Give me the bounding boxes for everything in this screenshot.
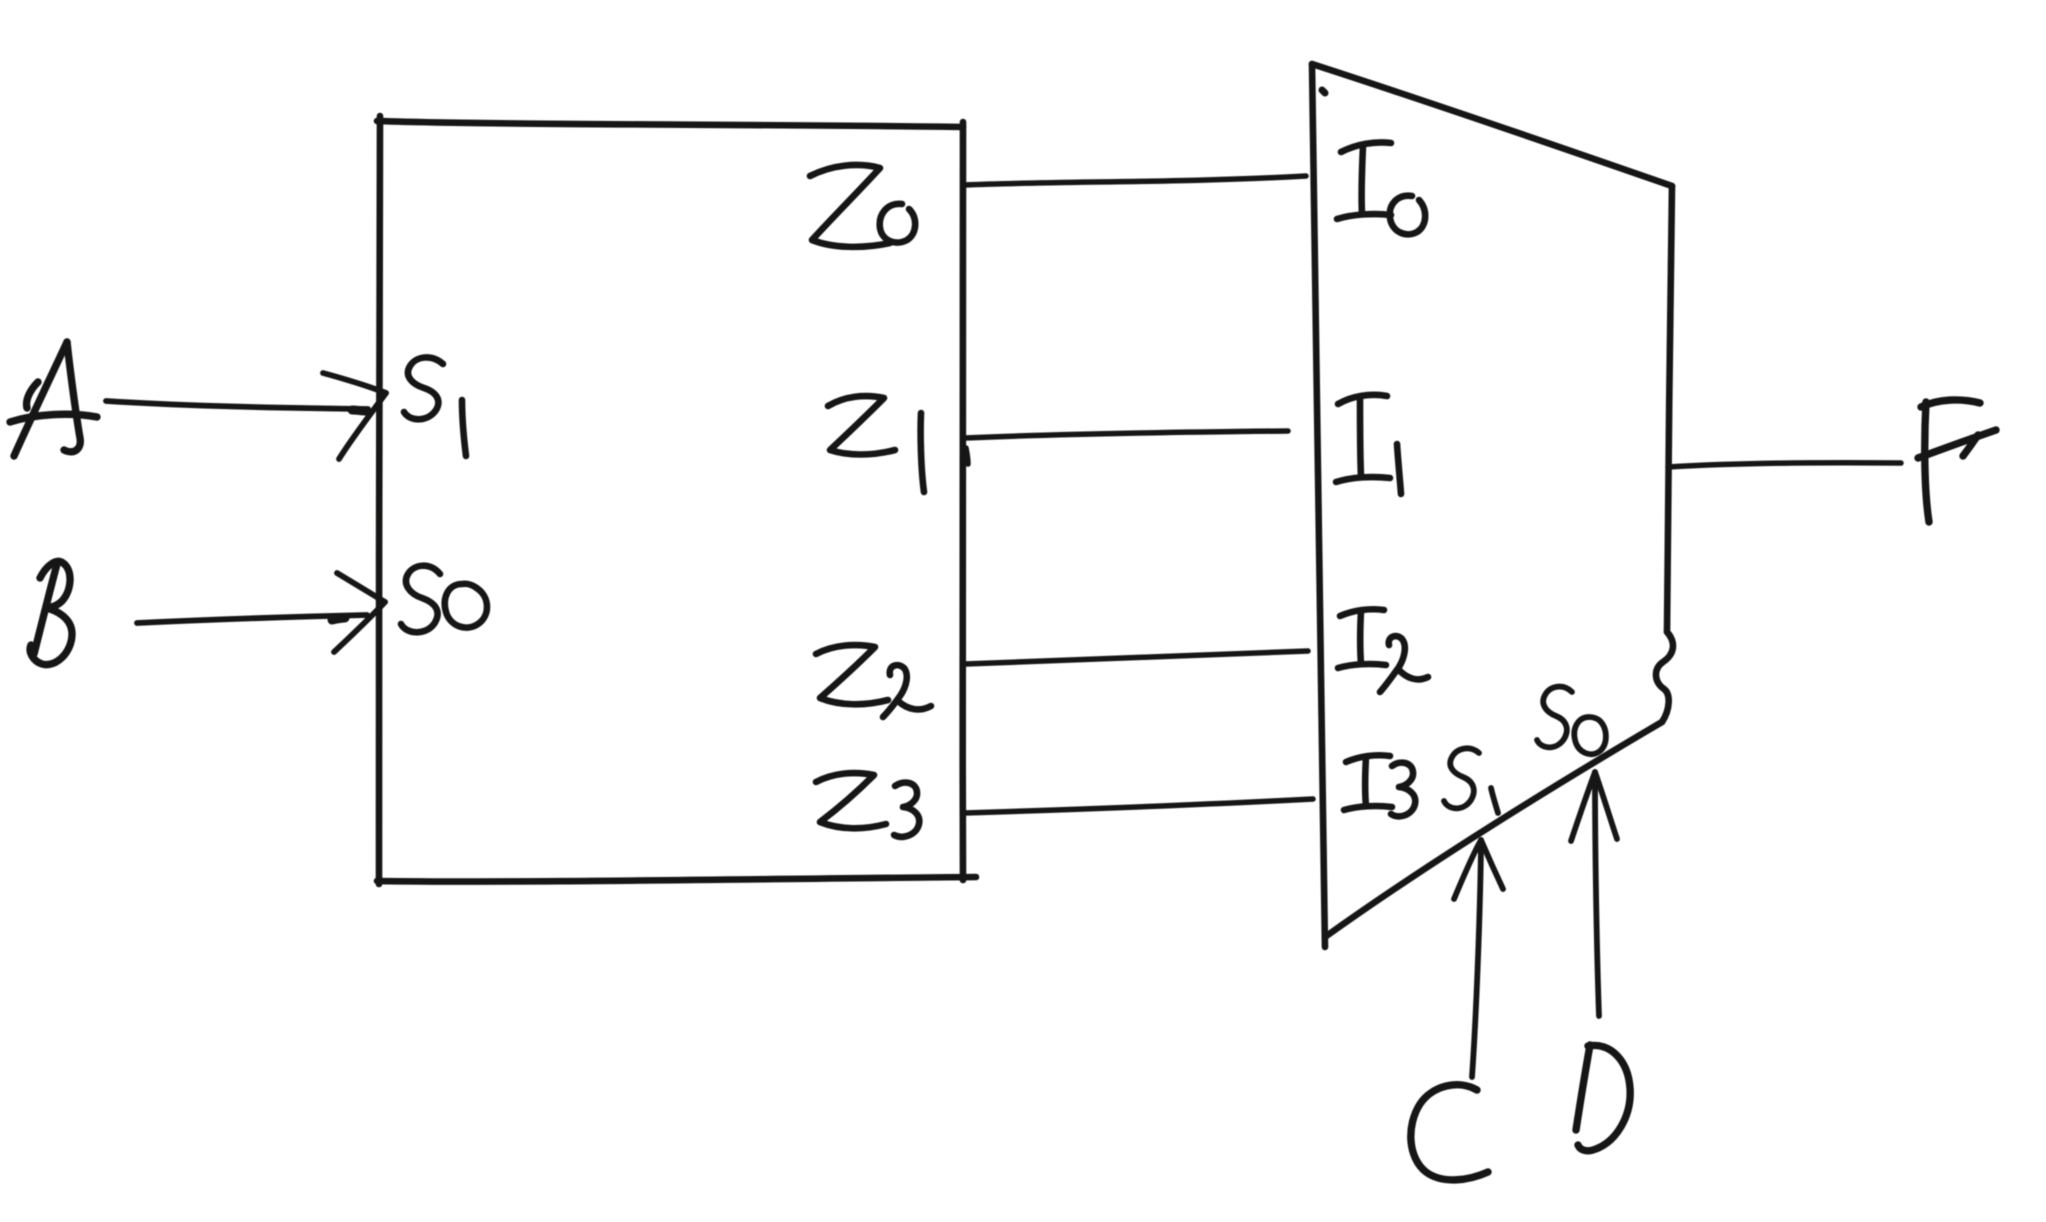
node A label (10, 342, 97, 456)
pin S0 label (decoder select input) (401, 566, 487, 633)
pin Z2 label (decoder output) (816, 645, 931, 717)
wire Z1 to I1 (965, 431, 1288, 438)
decoder box U1 (2-to-4 decoder rectangle) (377, 116, 976, 884)
wire B to S0 with arrowhead (137, 573, 385, 652)
wire D to mux select S0 with arrowhead (1571, 772, 1617, 1016)
wire A to S1 with arrowhead (106, 373, 386, 459)
pin I3 label (mux data input) (1344, 755, 1415, 816)
pin S1 label (decoder select input) (404, 357, 466, 456)
pin S0 label (mux select) (1537, 687, 1606, 755)
pin S1 label (mux select) (1444, 748, 1498, 813)
wire C to mux select S1 with arrowhead (1454, 840, 1503, 1077)
mux U2 (4-to-1 multiplexer trapezoid) (1312, 64, 1673, 947)
wire mux output to F (1668, 463, 1901, 467)
node B label (30, 561, 72, 664)
pin I2 label (mux data input) (1338, 609, 1428, 692)
wire Z0 to I0 (965, 176, 1306, 185)
pin I0 label (mux data input) (1337, 142, 1425, 234)
junction tick below Z1 pin (966, 448, 968, 464)
wire Z3 to I3 (965, 799, 1313, 813)
pin Z1 label (decoder output) (828, 396, 924, 492)
wire Z2 to I2 (965, 651, 1308, 664)
pin Z0 label (decoder output) (810, 165, 915, 247)
pin Z3 label (decoder output) (816, 773, 919, 837)
pin I1 label (mux data input) (1336, 395, 1401, 494)
node C label (1411, 1085, 1488, 1180)
node D label (1576, 1045, 1630, 1151)
node F label (1918, 400, 1996, 522)
